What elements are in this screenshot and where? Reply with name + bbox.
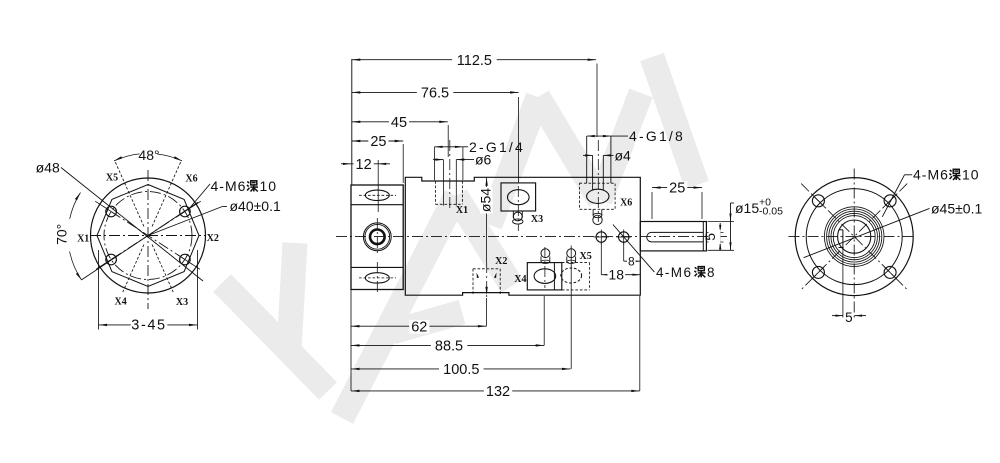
svg-text:X6: X6 [620,197,632,208]
svg-text:ø45±0.1: ø45±0.1 [931,200,982,216]
svg-text:12: 12 [356,157,372,173]
svg-text:-0.05: -0.05 [759,206,783,218]
svg-text:62: 62 [411,319,427,335]
svg-text:ø4: ø4 [615,148,632,164]
svg-text:10: 10 [260,178,278,194]
svg-text:ø6: ø6 [475,152,492,168]
svg-text:4-M6: 4-M6 [913,167,949,183]
svg-text:8: 8 [707,265,715,280]
svg-text:4-M6: 4-M6 [656,265,692,280]
svg-text:70°: 70° [54,224,70,245]
svg-text:88.5: 88.5 [435,339,463,355]
svg-text:10: 10 [962,167,980,183]
svg-text:X3: X3 [531,214,543,225]
svg-text:ø15: ø15 [735,200,759,216]
svg-text:48°: 48° [138,147,159,163]
svg-text:45: 45 [391,115,407,131]
svg-text:X1: X1 [77,234,89,245]
svg-text:ø54: ø54 [478,188,494,212]
svg-text:5: 5 [845,310,853,325]
svg-text:4-M6: 4-M6 [211,178,247,194]
svg-text:76.5: 76.5 [421,86,449,102]
svg-text:ø40±0.1: ø40±0.1 [230,198,281,214]
svg-text:X3: X3 [176,297,188,308]
svg-text:X4: X4 [114,297,126,308]
svg-text:132: 132 [486,384,510,400]
svg-text:5: 5 [702,233,718,241]
svg-text:112.5: 112.5 [457,53,492,69]
svg-text:ø48: ø48 [36,159,60,175]
svg-text:100.5: 100.5 [443,362,479,378]
svg-text:X2: X2 [495,256,507,267]
svg-text:X6: X6 [185,174,197,185]
svg-text:X1: X1 [456,205,468,216]
svg-text:4-G1/8: 4-G1/8 [629,128,685,144]
svg-text:8: 8 [628,254,635,268]
svg-text:X4: X4 [514,274,526,285]
svg-text:3-45: 3-45 [131,318,166,334]
svg-text:X5: X5 [579,251,591,262]
svg-text:X2: X2 [207,233,219,244]
svg-text:25: 25 [370,134,386,150]
svg-text:18: 18 [608,267,624,283]
svg-text:25: 25 [669,181,685,197]
svg-text:X5: X5 [106,173,118,184]
